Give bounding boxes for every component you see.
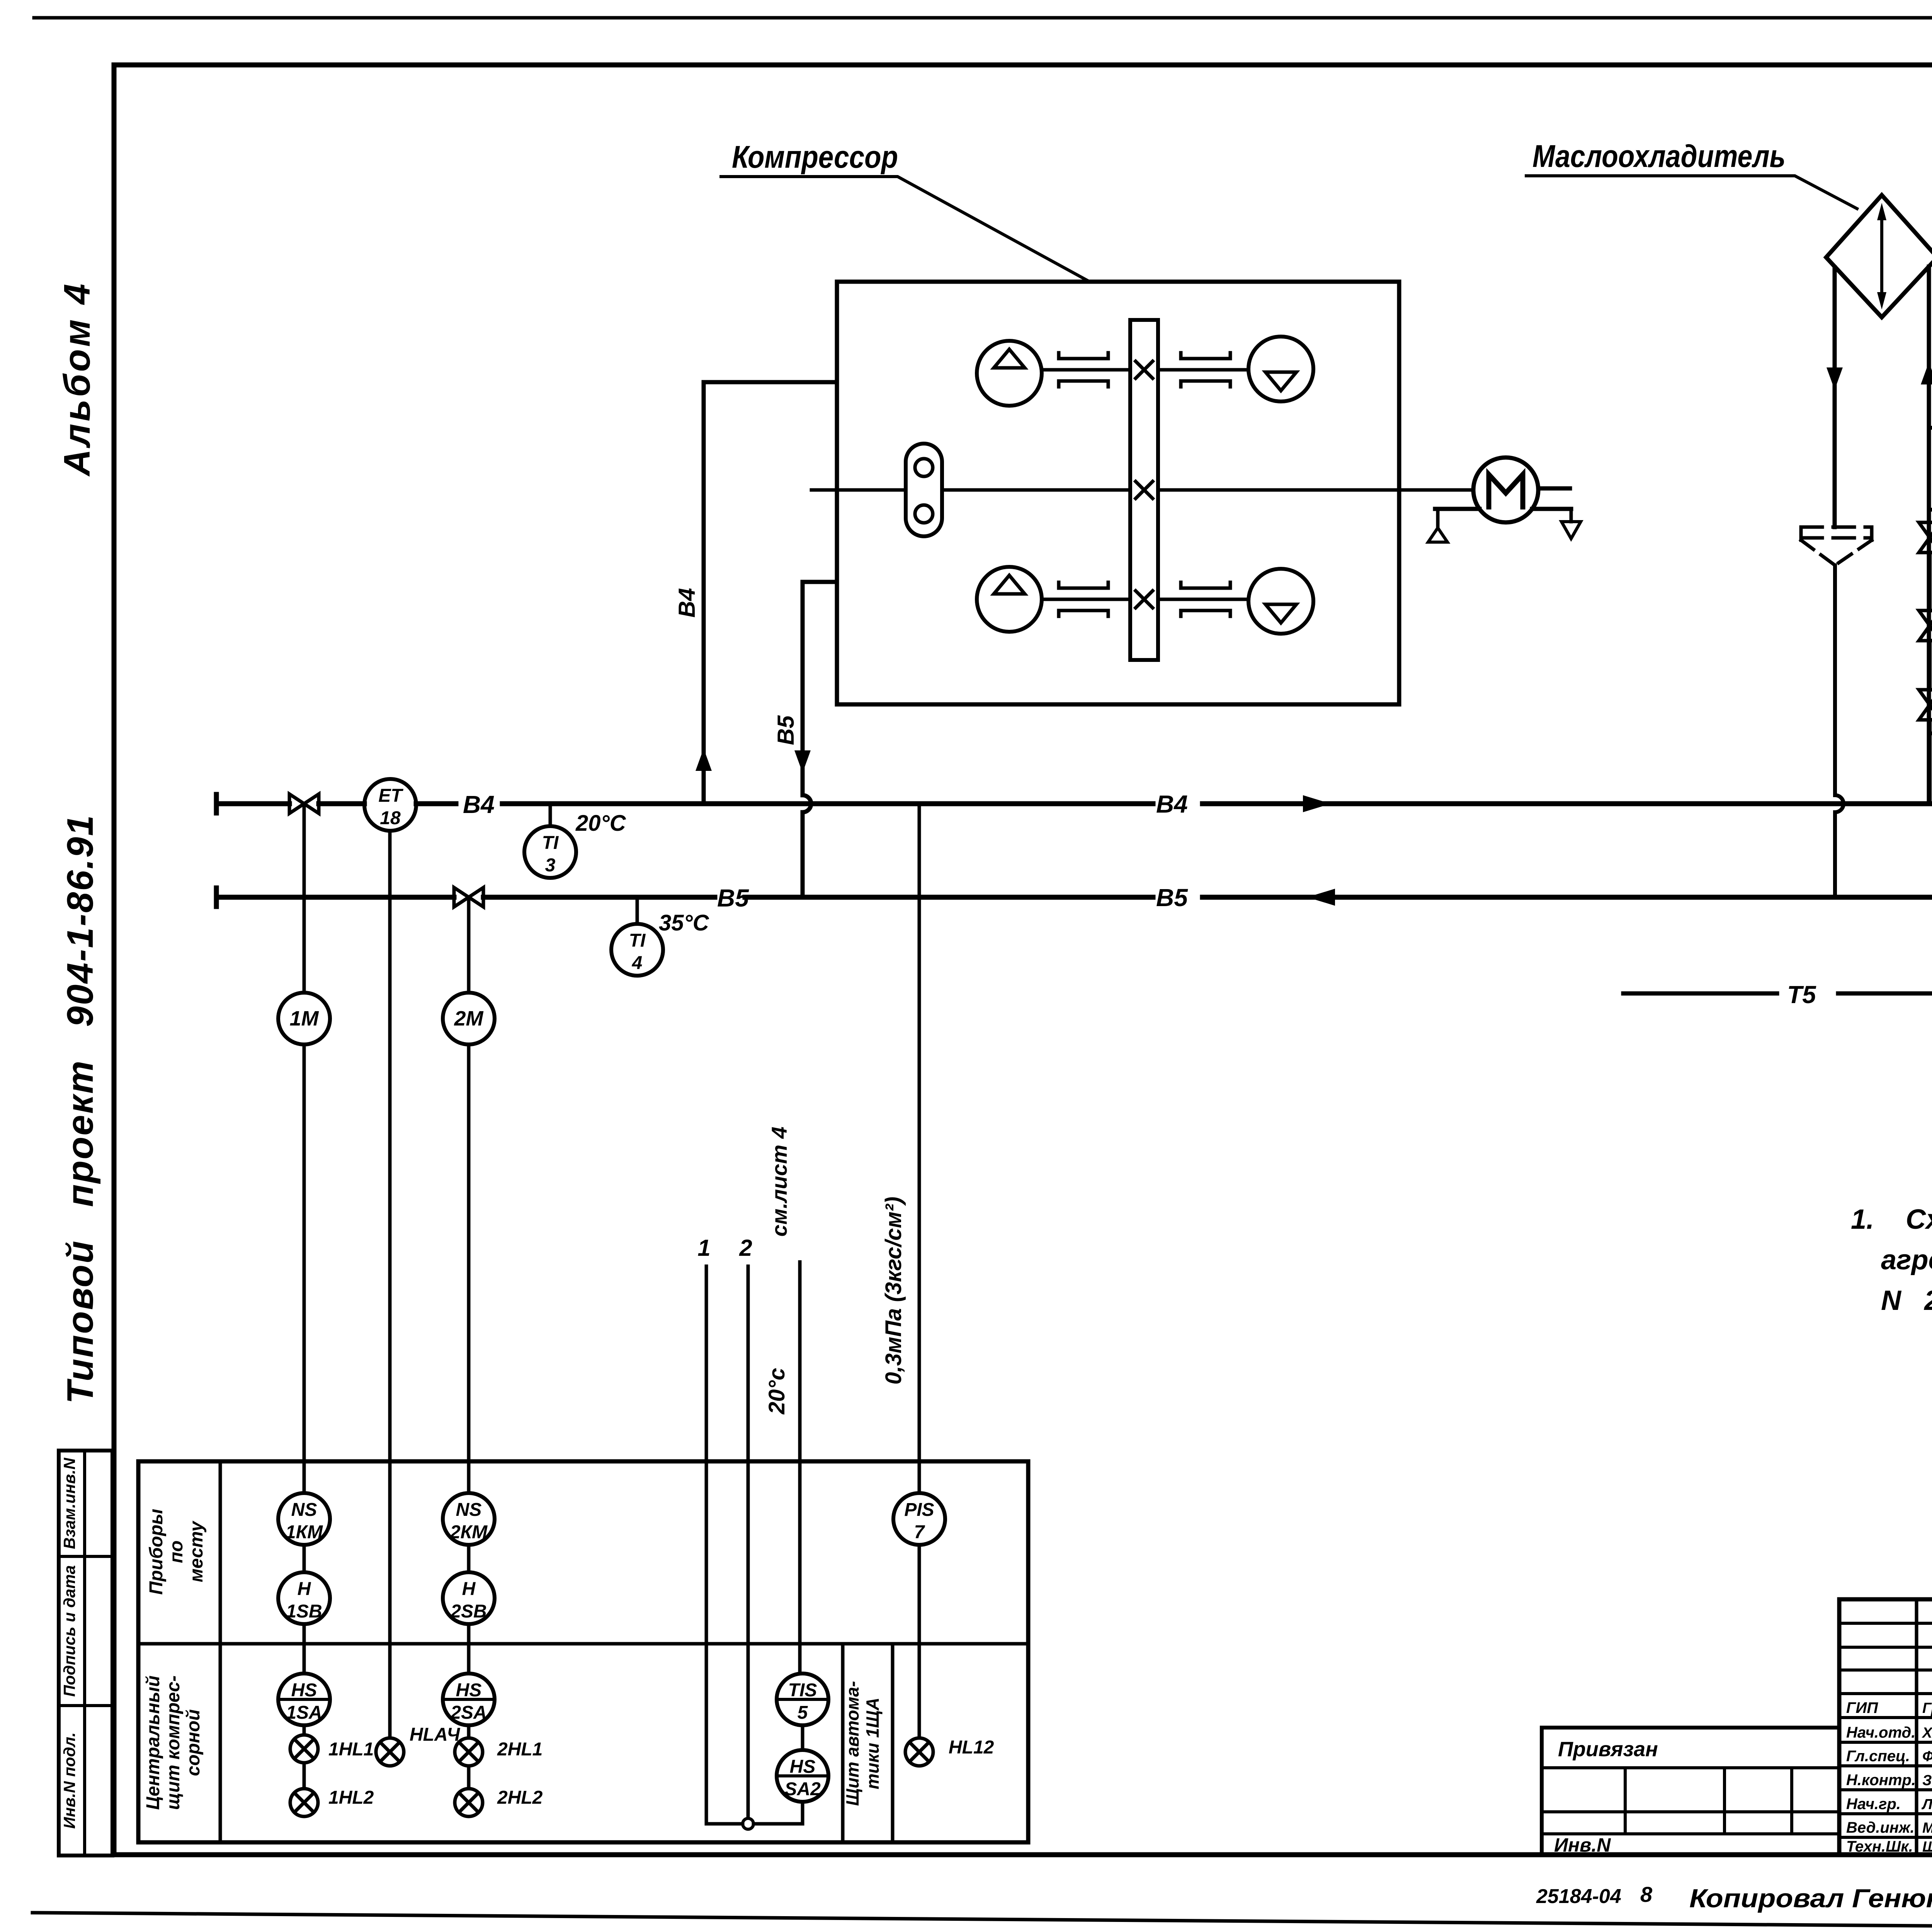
svg-text:Инв.N: Инв.N <box>1554 1834 1611 1856</box>
label Shchit avtomatiki 1ShchA <box>842 1681 883 1806</box>
instrument H-1SB <box>278 1572 330 1624</box>
instrument TI-4 <box>611 924 663 976</box>
svg-text:В5: В5 <box>717 884 749 912</box>
wire NS-2KM to H-2SB <box>467 1545 471 1572</box>
svg-text:NS: NS <box>456 1500 482 1520</box>
sig row Гл.спец. Фукс <box>1846 1748 1932 1765</box>
svg-text:1HL1: 1HL1 <box>328 1739 374 1760</box>
svg-text:SА2: SА2 <box>784 1779 821 1799</box>
funnel drain to B5 <box>1835 565 1844 897</box>
svg-text:35°С: 35°С <box>659 910 709 935</box>
wire HS-1SA to lamp 1HL1 <box>303 1725 306 1735</box>
svg-text:Инв.N подл.: Инв.N подл. <box>60 1732 78 1829</box>
svg-text:ТI: ТI <box>542 833 559 853</box>
instrument 1M <box>278 993 330 1044</box>
svg-text:Любимова: Любимова <box>1921 1796 1932 1813</box>
caption Maslookhladitel with leader <box>1526 139 1857 209</box>
oil cooler left downpipe <box>1833 267 1837 527</box>
tap to TI-4 <box>636 897 639 924</box>
svg-text:Н: Н <box>298 1579 311 1599</box>
sig row Нач.гр. Любимова <box>1846 1796 1932 1813</box>
svg-text:НS: НS <box>456 1680 482 1701</box>
svg-text:Н: Н <box>462 1579 476 1599</box>
valve solenoid YA2 body <box>1919 611 1932 641</box>
svg-text:тики 1ЩА: тики 1ЩА <box>862 1697 883 1789</box>
svg-text:Христофоров: Христофоров <box>1922 1725 1932 1741</box>
svg-text:ТIS: ТIS <box>788 1680 817 1701</box>
svg-text:3: 3 <box>545 855 556 876</box>
instrument TIS-5 <box>777 1673 828 1725</box>
svg-text:2КМ: 2КМ <box>450 1522 488 1543</box>
svg-text:20°С: 20°С <box>575 811 626 836</box>
svg-text:Нач.гр.: Нач.гр. <box>1846 1796 1901 1813</box>
svg-text:4: 4 <box>632 953 643 973</box>
wire H-1SB to HS-1SA <box>303 1624 306 1673</box>
label Central compressor panel <box>143 1675 204 1810</box>
svg-text:В4: В4 <box>463 791 495 818</box>
compressor gear shaft bar <box>1130 320 1158 660</box>
instrument 2M <box>443 993 495 1044</box>
automation panel 1ShchA cell <box>843 1644 893 1842</box>
svg-text:1. Схема выполнена для комп: 1. Схема выполнена для компрессорного <box>1851 1204 1932 1235</box>
instrument HS-2SA <box>443 1673 495 1725</box>
sig row Вед.инж. Менькова <box>1846 1819 1932 1836</box>
instrument HS-1SA <box>278 1673 330 1725</box>
svg-text:Григорьян: Григорьян <box>1922 1700 1932 1716</box>
svg-text:8: 8 <box>1640 1882 1653 1906</box>
privyazan table <box>1542 1728 1839 1855</box>
svg-text:Взам.инв.N: Взам.инв.N <box>60 1457 78 1549</box>
sig row Нач.отд. Христофоров <box>1846 1724 1932 1741</box>
bottom paper scan edge <box>32 1913 1932 1931</box>
svg-text:1М: 1М <box>289 1007 319 1030</box>
svg-text:Центральный: Центральный <box>143 1675 163 1810</box>
wire HS-2SA to lamp 2HL1 <box>467 1725 471 1738</box>
oil cooler right riser <box>1927 267 1931 804</box>
svg-text:Маслоохладитель: Маслоохладитель <box>1532 139 1786 174</box>
impulse line B4 to PIS-7 <box>918 804 921 1493</box>
svg-text:Приборы: Приборы <box>146 1509 167 1595</box>
svg-text:1КМ: 1КМ <box>286 1522 323 1543</box>
tap to TI-3 <box>549 804 552 826</box>
wire H-2SB to HS-2SA <box>467 1624 471 1673</box>
svg-text:Вед.инж.: Вед.инж. <box>1846 1819 1915 1836</box>
svg-text:Золотарёва: Золотарёва <box>1922 1772 1932 1789</box>
svg-text:Н.контр.: Н.контр. <box>1846 1772 1916 1789</box>
svg-text:2: 2 <box>739 1235 752 1261</box>
svg-text:2М: 2М <box>454 1007 483 1030</box>
svg-text:В4: В4 <box>674 588 700 618</box>
wire NS-1KM to H-1SB <box>303 1545 306 1572</box>
wire junction node <box>743 1818 753 1829</box>
pipe B5 main line <box>216 888 1932 906</box>
svg-text:ЕТ: ЕТ <box>378 786 403 806</box>
svg-text:Фукс: Фукс <box>1922 1748 1932 1765</box>
compressor unit box <box>837 282 1399 704</box>
svg-text:Подпись и дата: Подпись и дата <box>60 1565 78 1697</box>
panel allocation table <box>138 1461 1028 1842</box>
filter funnel <box>1801 527 1872 565</box>
svg-text:Гл.спец.: Гл.спец. <box>1846 1748 1910 1765</box>
svg-text:HL12: HL12 <box>949 1737 994 1758</box>
drop B5 from compressor <box>803 582 837 897</box>
coupling <box>1181 353 1230 387</box>
title block main box <box>1839 1599 1932 1855</box>
svg-text:N 2,3,4,5 схема аналогична: N 2,3,4,5 схема аналогична <box>1881 1285 1932 1316</box>
signal wire 2M down <box>467 1044 471 1493</box>
svg-text:сорной: сорной <box>183 1709 204 1776</box>
signal wire from B4 valve to 1M <box>303 804 306 993</box>
instrument NS-1KM <box>278 1493 330 1545</box>
shaft connection X top <box>1136 361 1153 378</box>
svg-text:Компрессор: Компрессор <box>732 139 898 175</box>
sig row ГИП Григорьян <box>1846 1699 1932 1716</box>
branch to YA1 group <box>1929 428 1932 510</box>
wire 1HL1 to 1HL2 <box>303 1763 306 1789</box>
instrument NS-2KM <box>443 1493 495 1545</box>
svg-text:В4: В4 <box>1156 790 1188 818</box>
svg-text:2HL2: 2HL2 <box>497 1787 543 1808</box>
svg-text:1SА: 1SА <box>286 1702 322 1723</box>
sig row Н.контр. Золотарёва <box>1846 1772 1932 1789</box>
wire tag 1 line <box>705 1266 708 1824</box>
inventory side table <box>59 1451 112 1855</box>
ground left <box>1428 509 1447 542</box>
shaft lower left <box>1042 598 1130 601</box>
svg-text:5: 5 <box>798 1702 808 1723</box>
compressor rotor upper left <box>977 341 1042 406</box>
svg-text:Альбом 4: Альбом 4 <box>56 281 98 476</box>
svg-text:18: 18 <box>380 808 401 828</box>
valve on B4 inlet <box>289 794 319 813</box>
svg-text:2HL1: 2HL1 <box>497 1739 543 1760</box>
svg-text:HLАЧ: HLАЧ <box>410 1725 460 1745</box>
svg-text:Щит автома-: Щит автома- <box>842 1681 862 1806</box>
flow arrow on B5 <box>1307 889 1335 906</box>
motor lower lead <box>1435 507 1571 511</box>
valve 2 on YA2 line <box>1919 690 1932 720</box>
valve group YA2 bypass loop <box>1930 510 1932 804</box>
coupling <box>1059 582 1108 616</box>
svg-text:Нач.отд.: Нач.отд. <box>1846 1724 1915 1741</box>
instrument PIS-7 <box>893 1493 945 1545</box>
wire 2HL1 to 2HL2 <box>467 1766 471 1789</box>
svg-text:агрегата N 1, для компрессо: агрегата N 1, для компрессорных агрегато… <box>1881 1245 1932 1276</box>
svg-text:ТI: ТI <box>629 930 646 951</box>
ground right <box>1561 509 1581 539</box>
lamp 2HL2 <box>455 1789 483 1816</box>
svg-text:РIS: РIS <box>904 1500 934 1520</box>
instrument HS-SA2 <box>777 1750 828 1802</box>
lamp HLA4 <box>376 1738 404 1766</box>
svg-text:NS: NS <box>291 1500 317 1520</box>
svg-text:0,3мПа (3кгс/см²): 0,3мПа (3кгс/см²) <box>881 1197 906 1384</box>
svg-text:2SА: 2SА <box>450 1702 486 1723</box>
instrument H-2SB <box>443 1572 495 1624</box>
svg-text:В5: В5 <box>773 715 799 745</box>
svg-text:25184-04: 25184-04 <box>1536 1885 1621 1908</box>
svg-text:Менькова: Менькова <box>1922 1820 1932 1836</box>
pipe T5 line <box>1623 985 1932 1002</box>
shaft upper right <box>1158 368 1248 372</box>
shaft connection X middle <box>1136 481 1153 498</box>
compressor rotor lower right <box>1248 569 1313 634</box>
lamp 1HL1 <box>290 1735 318 1763</box>
shaft lower right <box>1158 598 1248 601</box>
signal wire 1M down <box>303 1044 306 1493</box>
wire bus to HS-SA2 <box>706 1822 803 1826</box>
svg-text:щит компрес-: щит компрес- <box>163 1675 184 1810</box>
svg-text:см.лист 4: см.лист 4 <box>767 1127 791 1237</box>
svg-text:1HL2: 1HL2 <box>328 1787 374 1808</box>
sig row Техн.Шк. Шрамко <box>1846 1838 1932 1855</box>
valve on B5 return <box>454 888 483 907</box>
svg-text:по: по <box>166 1541 187 1563</box>
wire TIS-5 to HS-SA2 <box>801 1725 804 1750</box>
signal wire from B5 valve to 2M <box>467 897 471 993</box>
svg-text:НS: НS <box>790 1757 816 1777</box>
compressor rotor upper right <box>1248 337 1313 401</box>
lamp 1HL2 <box>290 1789 318 1816</box>
instrument TI-3 <box>524 826 576 878</box>
main drive shaft line <box>811 488 1473 492</box>
lamp HL12 <box>905 1738 933 1766</box>
svg-text:1: 1 <box>697 1235 710 1261</box>
svg-text:НS: НS <box>291 1680 317 1701</box>
caption Kompressor with leader <box>721 139 1090 282</box>
svg-text:месту: месту <box>186 1520 207 1582</box>
svg-text:2SВ: 2SВ <box>450 1601 486 1622</box>
shaft upper left <box>1042 368 1130 372</box>
compressor rotor lower left <box>977 567 1042 632</box>
oil cooler diamond <box>1826 195 1932 317</box>
wire PIS-7 to HL12 <box>918 1545 921 1738</box>
svg-text:ГИП: ГИП <box>1846 1699 1878 1716</box>
coupling <box>1181 582 1230 616</box>
riser B4 to compressor <box>704 382 837 804</box>
valve 1 on YA2 line <box>1919 522 1932 553</box>
crank link symbol <box>906 444 942 536</box>
coupling <box>1059 353 1108 387</box>
svg-text:7: 7 <box>914 1522 925 1543</box>
motor M1 <box>1473 457 1538 522</box>
wire HS-SA2 down <box>801 1802 804 1824</box>
lamp 2HL1 <box>455 1738 483 1766</box>
svg-text:Типовой проект 904-1-86.91: Типовой проект 904-1-86.91 <box>60 814 101 1404</box>
motor right lead <box>1538 486 1570 491</box>
shaft connection X bottom <box>1136 591 1153 608</box>
label Pribory po mestu <box>146 1509 207 1595</box>
svg-text:Привязан: Привязан <box>1558 1738 1658 1761</box>
flow arrow on B4 <box>1303 795 1331 812</box>
wire see sheet 4 <box>798 1262 802 1673</box>
svg-text:Т5: Т5 <box>1787 981 1816 1009</box>
svg-text:В5: В5 <box>1156 884 1188 912</box>
svg-text:20°с: 20°с <box>764 1368 789 1415</box>
signal wire ET-18 to HLA4 <box>388 831 392 1738</box>
svg-text:Копировал Генюк: Копировал Генюк <box>1689 1884 1932 1913</box>
pipe B4 main line <box>216 794 1932 813</box>
instrument ET-18 on B4 <box>364 779 416 831</box>
title block signature table <box>1839 1599 1932 1855</box>
sheet top scan edge line <box>34 16 1932 20</box>
svg-text:1SВ: 1SВ <box>286 1601 322 1622</box>
wire tag 2 line <box>747 1266 750 1819</box>
